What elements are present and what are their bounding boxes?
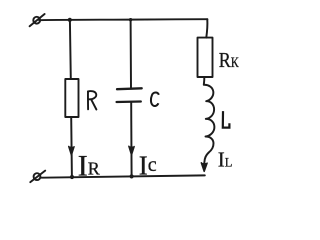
current arrow IC bbox=[129, 146, 134, 155]
terminal bottom-left bbox=[30, 171, 45, 183]
svg-text:RК: RК bbox=[219, 49, 239, 73]
inductor L bbox=[204, 77, 215, 152]
label L bbox=[223, 112, 230, 127]
wire R-branch lower bbox=[70, 117, 73, 177]
resistor Rk bbox=[198, 38, 213, 77]
label R bbox=[88, 91, 96, 109]
wire bottom horizontal bbox=[42, 175, 205, 177]
label C bbox=[151, 93, 159, 106]
capacitor C bbox=[117, 88, 142, 102]
wire C-branch upper bbox=[130, 20, 132, 88]
wire top-right corner down to Rk bbox=[206, 19, 207, 37]
wire L to bottom with current arrow IL bbox=[204, 153, 208, 170]
wire C-branch lower bbox=[130, 102, 132, 176]
terminal top-left bbox=[30, 14, 45, 26]
svg-text:IR: IR bbox=[78, 150, 100, 183]
wire R-branch upper bbox=[69, 20, 72, 79]
current arrow IR bbox=[69, 146, 74, 155]
node junction top C-branch bbox=[129, 18, 132, 21]
node junction bottom C-branch bbox=[130, 174, 134, 178]
svg-text:IL: IL bbox=[218, 148, 233, 172]
wire top horizontal bbox=[39, 19, 207, 20]
node junction bottom R-branch bbox=[70, 175, 74, 179]
resistor R bbox=[65, 79, 78, 117]
current arrow IL head bbox=[201, 163, 207, 172]
node junction top R-branch bbox=[68, 18, 72, 22]
